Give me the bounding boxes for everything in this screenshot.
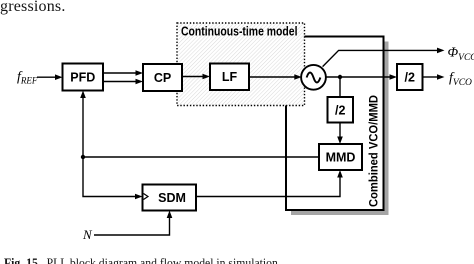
block /2 upper	[397, 64, 423, 90]
clock mark	[144, 194, 149, 200]
block /2 lower	[328, 97, 354, 123]
svg-text:N: N	[82, 227, 93, 242]
svg-text:LF: LF	[222, 70, 238, 84]
wire feedback down to SDM	[83, 157, 137, 197]
wire CP to LF	[182, 76, 204, 78]
svg-text:SDM: SDM	[158, 191, 186, 205]
body text fragment "gressions."	[0, 0, 66, 16]
wire LF to VCO	[249, 76, 296, 78]
figure caption (cut off at bottom)	[4, 255, 281, 264]
combined VCO/MMD box	[286, 37, 384, 211]
oscillator VCO	[301, 65, 326, 90]
svg-text:CP: CP	[154, 71, 171, 85]
svg-text:Combined VCO/MMD: Combined VCO/MMD	[367, 95, 381, 207]
svg-text:PFD: PFD	[70, 71, 95, 85]
wire phi tap diagonal	[323, 50, 438, 66]
wire PFD to CP (lower)	[103, 81, 137, 83]
wire fREF to PFD	[37, 76, 57, 78]
combined VCO/MMD box shadow	[291, 42, 389, 216]
svg-text:fVCO: fVCO	[449, 71, 472, 89]
block MMD	[319, 144, 362, 170]
wire junction down to /2	[339, 77, 341, 97]
svg-text:/2: /2	[404, 71, 414, 85]
svg-text:Continuous-time model: Continuous-time model	[181, 25, 298, 39]
wire N input	[94, 217, 170, 236]
wire MMD output to feedback node	[83, 156, 319, 158]
wire SDM output to MMD	[196, 176, 340, 197]
block PFD	[63, 64, 104, 91]
node junction	[338, 75, 342, 79]
wire feedback up to PFD	[82, 97, 84, 158]
svg-text:/2: /2	[335, 104, 345, 118]
node feedback junction	[81, 155, 85, 159]
wire VCO output to /2	[325, 76, 390, 78]
wire /2 to fVCO	[423, 76, 439, 78]
svg-text:ΦVCO: ΦVCO	[448, 46, 474, 64]
block SDM	[143, 185, 197, 211]
block LF	[210, 64, 249, 91]
svg-text:fREF: fREF	[17, 70, 38, 86]
block CP	[143, 64, 182, 91]
wire PFD to CP (upper)	[103, 72, 137, 74]
continuous-time model dashed hatched box	[177, 23, 305, 106]
svg-text:MMD: MMD	[326, 151, 356, 165]
wire /2 down to MMD	[339, 123, 341, 139]
